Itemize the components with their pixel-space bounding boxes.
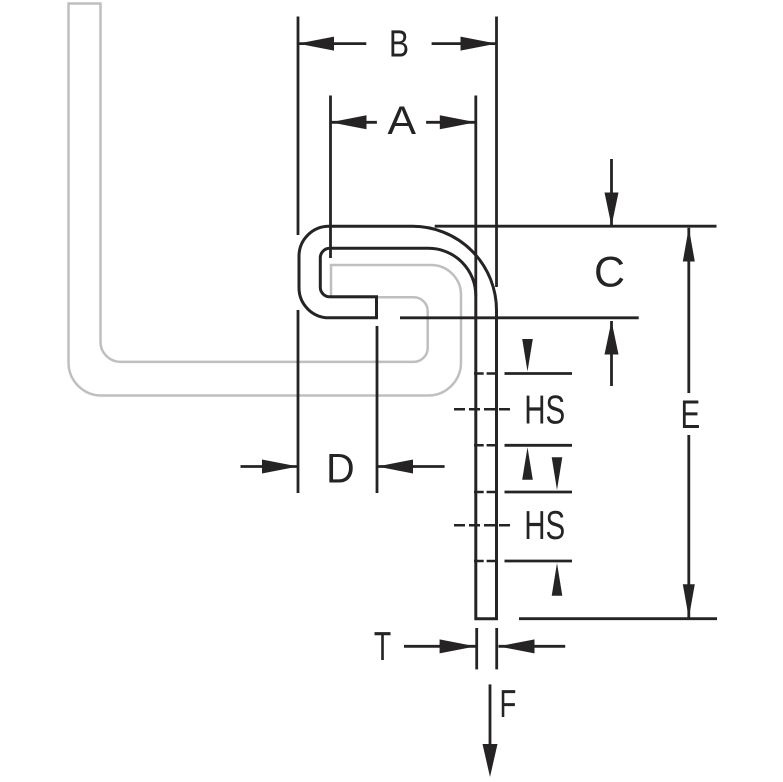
svg-text:D: D (326, 444, 355, 491)
arrow A right (440, 115, 476, 129)
extension line A right (474, 96, 477, 297)
extension lines T (475, 628, 478, 669)
dimension line C bottom (610, 321, 613, 386)
F force line (489, 684, 492, 748)
svg-text:A: A (388, 99, 417, 143)
extension line bottom of E (519, 617, 717, 620)
dash-dot centerline HS 1 (454, 408, 513, 411)
dashed tick across leg at HS line 4 (474, 560, 498, 563)
extension line B right (495, 17, 498, 288)
arrow F (points down) (483, 744, 498, 777)
arrow HS2 upper (points down at line3) (552, 457, 563, 490)
HS boundary line 2 (505, 444, 573, 447)
dimension line A (331, 121, 377, 124)
extension line top of C / E (435, 225, 717, 228)
svg-text:C: C (594, 248, 625, 296)
HS boundary line 1 (505, 372, 573, 375)
dimension line D (241, 465, 299, 468)
dash-dot centerline HS 2 (454, 524, 513, 527)
arrow C bottom (points up) (605, 321, 619, 355)
svg-text:HS: HS (524, 387, 565, 433)
svg-text:E: E (680, 393, 700, 437)
arrow A left (331, 115, 367, 129)
arrow D left (points right) (262, 460, 298, 474)
dimension line C top (610, 159, 613, 226)
arrow HS2 lower (points up at line4) (552, 563, 563, 596)
svg-text:HS: HS (524, 502, 565, 548)
HS boundary line 3 (505, 491, 573, 494)
arrow E top (points up) (683, 228, 695, 262)
arrow D right (points left) (377, 460, 413, 474)
arrow C top (points down) (605, 193, 619, 227)
arrow T right (points left) (499, 639, 535, 653)
arrow B left (298, 37, 334, 51)
dashed tick across leg at HS line 1 (474, 372, 498, 375)
arrow B right (461, 37, 497, 51)
dimension line B (298, 42, 366, 45)
svg-text:T: T (374, 623, 391, 669)
arrow E bottom (points down) (683, 584, 695, 618)
dimension line E (687, 228, 690, 393)
arrow HS1 upper (points down at line1) (522, 339, 533, 372)
dimension line T (404, 645, 476, 648)
arrow T left (points right) (440, 639, 476, 653)
ghost mating profile (light gray L-angle with hem hook) (69, 4, 462, 396)
dashed tick across leg at HS line 3 (474, 491, 498, 494)
svg-text:B: B (389, 24, 409, 66)
extension line B left (297, 17, 300, 236)
arrow HS1 lower (points up at line2) (522, 447, 533, 480)
extension line D right (376, 326, 379, 493)
extension line A left (329, 96, 332, 259)
svg-text:F: F (500, 683, 517, 726)
dashed tick across leg at HS line 2 (474, 444, 498, 447)
HS boundary line 4 (505, 560, 573, 563)
extension line bottom of C (400, 316, 639, 319)
dark profile (hook cross-section with hem and leg) (299, 226, 497, 618)
